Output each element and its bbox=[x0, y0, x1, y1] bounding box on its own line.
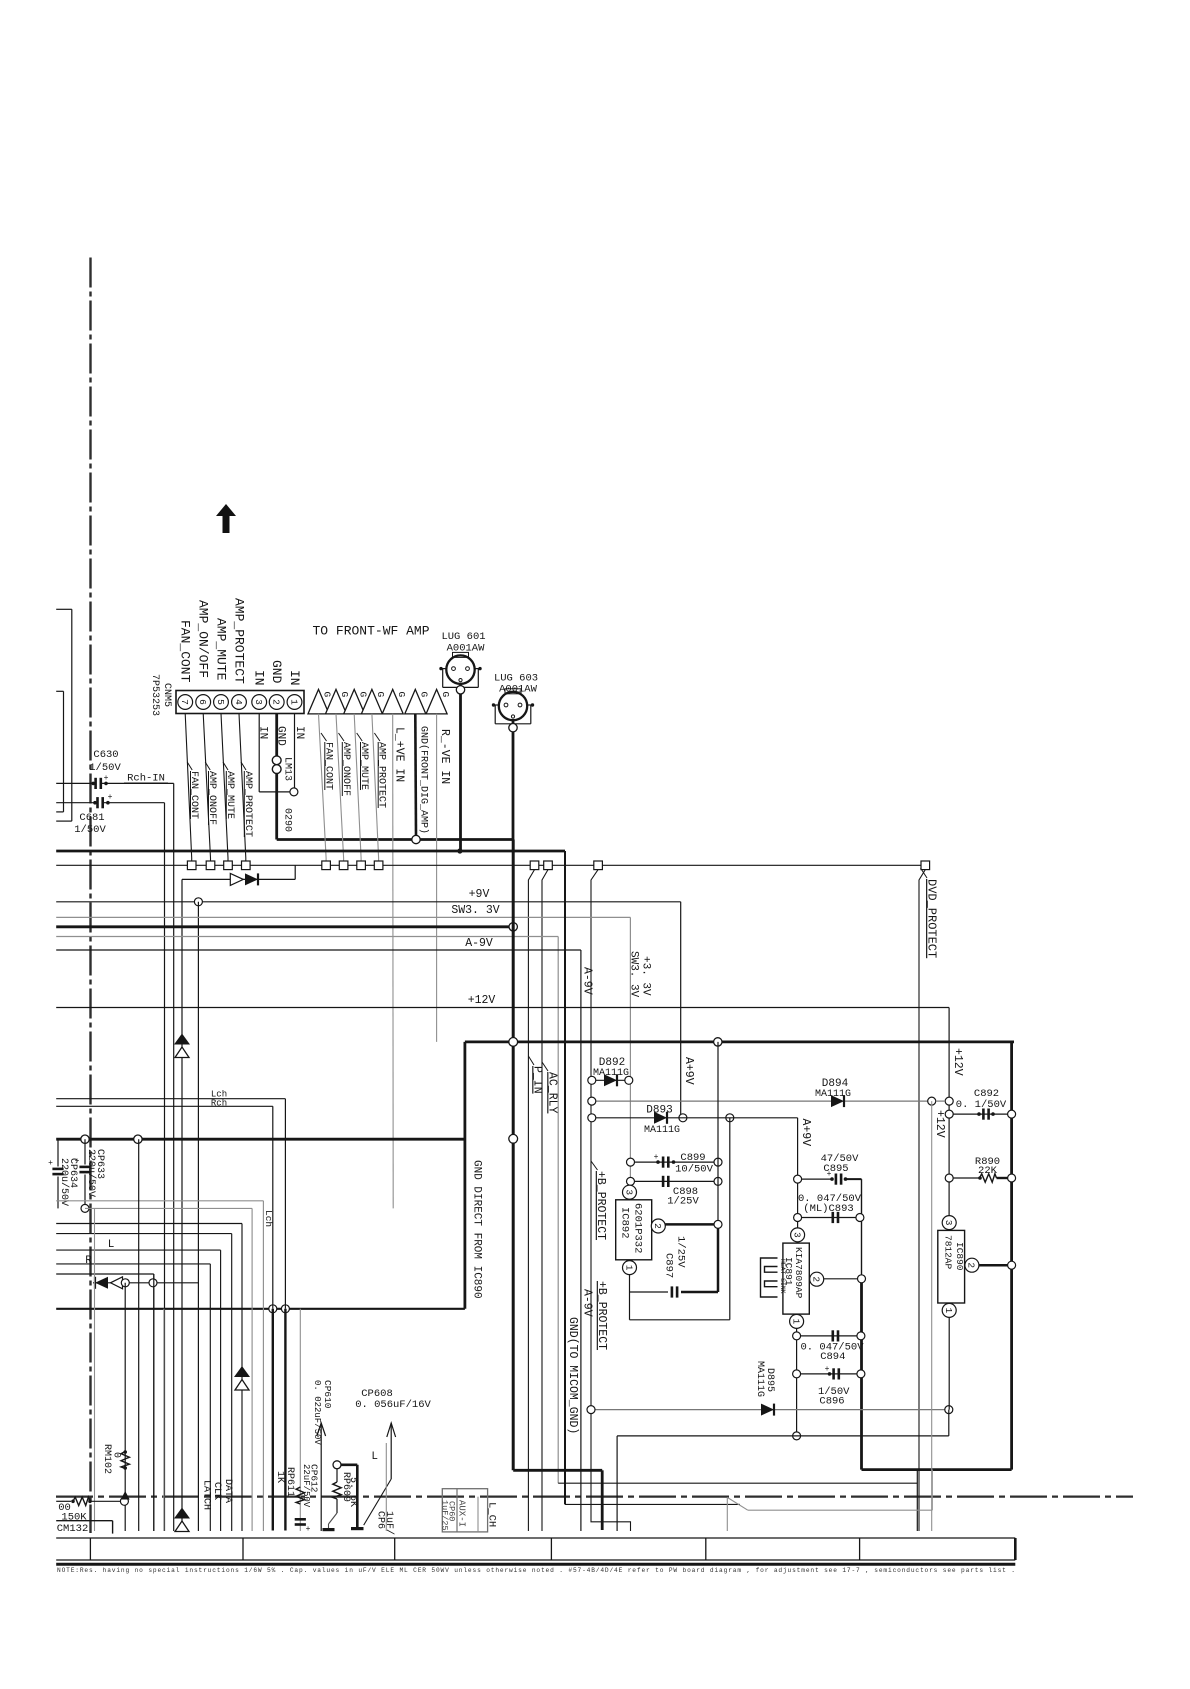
svg-text:LATCH: LATCH bbox=[200, 1480, 211, 1510]
svg-text:IN: IN bbox=[293, 726, 305, 739]
svg-text:FAN_CONT: FAN_CONT bbox=[322, 742, 333, 790]
svg-text:SW3. 3V: SW3. 3V bbox=[451, 904, 499, 917]
svg-text:IC890: IC890 bbox=[954, 1242, 965, 1271]
svg-text:+9V: +9V bbox=[469, 888, 490, 901]
svg-text:A001AW: A001AW bbox=[499, 684, 538, 696]
svg-text:LUG 601: LUG 601 bbox=[441, 631, 485, 643]
svg-text:GND: GND bbox=[269, 660, 284, 684]
svg-text:2: 2 bbox=[810, 1276, 821, 1282]
svg-text:C630: C630 bbox=[93, 749, 118, 761]
svg-text:3: 3 bbox=[253, 699, 264, 705]
svg-text:1/25V: 1/25V bbox=[667, 1196, 699, 1208]
svg-text:RM102: RM102 bbox=[101, 1444, 112, 1474]
svg-text:G: G bbox=[419, 692, 430, 698]
svg-text:MA111G: MA111G bbox=[644, 1125, 680, 1136]
svg-text:NOTE:Res. having no special in: NOTE:Res. having no special instructions… bbox=[57, 1567, 1015, 1574]
svg-text:C681: C681 bbox=[79, 812, 104, 824]
svg-text:GND(TO MICOM_GND): GND(TO MICOM_GND) bbox=[566, 1317, 579, 1434]
svg-text:+: + bbox=[825, 1365, 830, 1374]
svg-text:MA111G: MA111G bbox=[815, 1089, 851, 1100]
svg-text:AMP_PROTECT: AMP_PROTECT bbox=[242, 771, 253, 837]
svg-text:AMP_PROTECT: AMP_PROTECT bbox=[231, 598, 246, 684]
svg-text:AMP_MUTE: AMP_MUTE bbox=[224, 771, 235, 819]
svg-text:FAN_CONT: FAN_CONT bbox=[178, 620, 193, 683]
svg-text:A+9V: A+9V bbox=[682, 1057, 695, 1085]
svg-text:+: + bbox=[48, 1159, 53, 1168]
svg-text:C896: C896 bbox=[819, 1396, 844, 1408]
svg-text:2: 2 bbox=[966, 1262, 977, 1268]
svg-text:+3. 3V: +3. 3V bbox=[640, 956, 652, 996]
svg-text:CM132: CM132 bbox=[57, 1523, 89, 1535]
svg-text:C899: C899 bbox=[680, 1152, 705, 1164]
svg-text:150K: 150K bbox=[61, 1512, 87, 1524]
svg-text:SW3. 3V: SW3. 3V bbox=[628, 951, 640, 998]
svg-text:1/25V: 1/25V bbox=[674, 1236, 686, 1268]
svg-text:7: 7 bbox=[179, 699, 190, 705]
svg-text:3: 3 bbox=[623, 1189, 634, 1195]
svg-text:R_-VE IN: R_-VE IN bbox=[438, 729, 451, 784]
svg-text:1: 1 bbox=[943, 1308, 954, 1314]
svg-text:A-9V: A-9V bbox=[580, 1289, 593, 1317]
svg-text:MA111G: MA111G bbox=[754, 1361, 765, 1397]
svg-text:+12V: +12V bbox=[933, 1110, 946, 1138]
svg-text:22uF/50V: 22uF/50V bbox=[301, 1464, 311, 1508]
svg-text:6: 6 bbox=[197, 699, 208, 705]
svg-text:IC892: IC892 bbox=[618, 1207, 630, 1239]
svg-text:G: G bbox=[375, 692, 386, 698]
svg-text:C897: C897 bbox=[663, 1253, 675, 1278]
svg-text:7812AP: 7812AP bbox=[942, 1235, 953, 1270]
svg-text:L_CH: L_CH bbox=[486, 1502, 498, 1527]
svg-text:FAN_CONT: FAN_CONT bbox=[188, 771, 199, 819]
svg-text:6201P332: 6201P332 bbox=[631, 1203, 643, 1253]
svg-text:RP611: RP611 bbox=[284, 1467, 295, 1497]
svg-text:0: 0 bbox=[110, 1452, 121, 1458]
svg-text:+B_PROTECT: +B_PROTECT bbox=[594, 1171, 607, 1240]
svg-text:A+9V: A+9V bbox=[799, 1119, 812, 1147]
svg-text:L: L bbox=[371, 1451, 378, 1463]
svg-text:C894: C894 bbox=[820, 1351, 845, 1363]
svg-text:C895: C895 bbox=[823, 1163, 848, 1175]
svg-text:1uF/: 1uF/ bbox=[383, 1511, 395, 1535]
svg-text:IN: IN bbox=[252, 670, 267, 686]
svg-text:G: G bbox=[396, 692, 407, 698]
svg-text:AMP_PROTECT: AMP_PROTECT bbox=[376, 742, 387, 808]
svg-text:R: R bbox=[85, 1255, 92, 1267]
svg-text:IN: IN bbox=[257, 726, 269, 739]
svg-text:2: 2 bbox=[271, 699, 282, 705]
svg-text:0290: 0290 bbox=[281, 808, 292, 832]
svg-text:GND DIRECT FROM IC890: GND DIRECT FROM IC890 bbox=[471, 1160, 483, 1299]
svg-text:1: 1 bbox=[790, 1319, 801, 1325]
svg-text:AMP_ONOFF: AMP_ONOFF bbox=[340, 742, 351, 796]
svg-text:1/50V: 1/50V bbox=[74, 824, 106, 836]
svg-text:1uF/25: 1uF/25 bbox=[440, 1500, 450, 1531]
svg-text:220u/50V: 220u/50V bbox=[85, 1149, 97, 1197]
svg-text:DATA: DATA bbox=[222, 1479, 233, 1503]
svg-text:0. 022uF/50V: 0. 022uF/50V bbox=[312, 1380, 322, 1445]
svg-text:G: G bbox=[440, 692, 451, 698]
svg-text:(ML)C893: (ML)C893 bbox=[803, 1203, 853, 1215]
svg-text:1: 1 bbox=[288, 699, 299, 705]
svg-text:7P53253: 7P53253 bbox=[149, 674, 160, 716]
svg-text:AMP_MUTE: AMP_MUTE bbox=[358, 742, 369, 790]
svg-text:+12V: +12V bbox=[468, 994, 496, 1007]
svg-text:+12V: +12V bbox=[951, 1048, 964, 1076]
svg-text:A-9V: A-9V bbox=[465, 937, 493, 950]
svg-text:Rch: Rch bbox=[211, 1098, 227, 1108]
svg-text:L: L bbox=[108, 1239, 115, 1251]
svg-text:2: 2 bbox=[652, 1223, 663, 1229]
svg-text:0. 056uF/16V: 0. 056uF/16V bbox=[355, 1399, 431, 1411]
svg-text:G: G bbox=[339, 692, 350, 698]
svg-text:MA111G: MA111G bbox=[593, 1068, 629, 1079]
svg-text:P_IN: P_IN bbox=[530, 1066, 543, 1094]
svg-text:+: + bbox=[306, 1525, 311, 1534]
svg-text:LM13: LM13 bbox=[281, 757, 292, 781]
svg-text:AMP_ONOFF: AMP_ONOFF bbox=[206, 771, 217, 825]
svg-text:AMP_MUTE: AMP_MUTE bbox=[213, 618, 228, 681]
svg-text:CP610: CP610 bbox=[322, 1380, 333, 1409]
svg-text:CLK: CLK bbox=[211, 1482, 222, 1500]
svg-text:220u/50V: 220u/50V bbox=[58, 1158, 70, 1206]
svg-text:HEAT-SINK: HEAT-SINK bbox=[779, 1259, 786, 1294]
svg-text:3: 3 bbox=[943, 1220, 954, 1226]
svg-text:AC_RLY: AC_RLY bbox=[545, 1072, 558, 1114]
svg-text:+: + bbox=[104, 774, 109, 783]
svg-text:10/50V: 10/50V bbox=[675, 1164, 714, 1176]
svg-text:22K: 22K bbox=[978, 1165, 998, 1177]
svg-text:5: 5 bbox=[215, 699, 226, 705]
svg-text:AMP_ON/OFF: AMP_ON/OFF bbox=[196, 600, 211, 678]
svg-text:AUX-I: AUX-I bbox=[457, 1500, 467, 1527]
svg-text:DVD_PROTECT: DVD_PROTECT bbox=[924, 879, 938, 958]
svg-text:D893: D893 bbox=[646, 1105, 672, 1117]
svg-text:+: + bbox=[654, 1153, 659, 1162]
svg-text:4: 4 bbox=[233, 699, 244, 705]
svg-text:1K: 1K bbox=[274, 1471, 285, 1483]
svg-text:A-9V: A-9V bbox=[580, 967, 593, 995]
svg-text:GND(FRONT_DIG_AMP): GND(FRONT_DIG_AMP) bbox=[417, 726, 429, 834]
svg-text:CNM5: CNM5 bbox=[161, 683, 172, 707]
svg-text:1/50V: 1/50V bbox=[89, 762, 121, 774]
svg-text:+B_PROTECT: +B_PROTECT bbox=[595, 1281, 608, 1350]
svg-text:IN: IN bbox=[287, 670, 302, 686]
svg-text:+: + bbox=[108, 793, 113, 802]
svg-text:G: G bbox=[322, 692, 333, 698]
svg-text:0. 1/50V: 0. 1/50V bbox=[956, 1099, 1007, 1111]
svg-text:TO FRONT-WF AMP: TO FRONT-WF AMP bbox=[312, 624, 429, 639]
svg-text:L_+VE IN: L_+VE IN bbox=[392, 727, 405, 782]
svg-text:Lch: Lch bbox=[263, 1210, 274, 1227]
svg-text:5. 6K: 5. 6K bbox=[347, 1477, 358, 1507]
svg-text:3: 3 bbox=[791, 1232, 802, 1238]
svg-text:1: 1 bbox=[623, 1265, 634, 1271]
svg-text:G: G bbox=[357, 692, 368, 698]
svg-text:A001AW: A001AW bbox=[447, 643, 486, 655]
